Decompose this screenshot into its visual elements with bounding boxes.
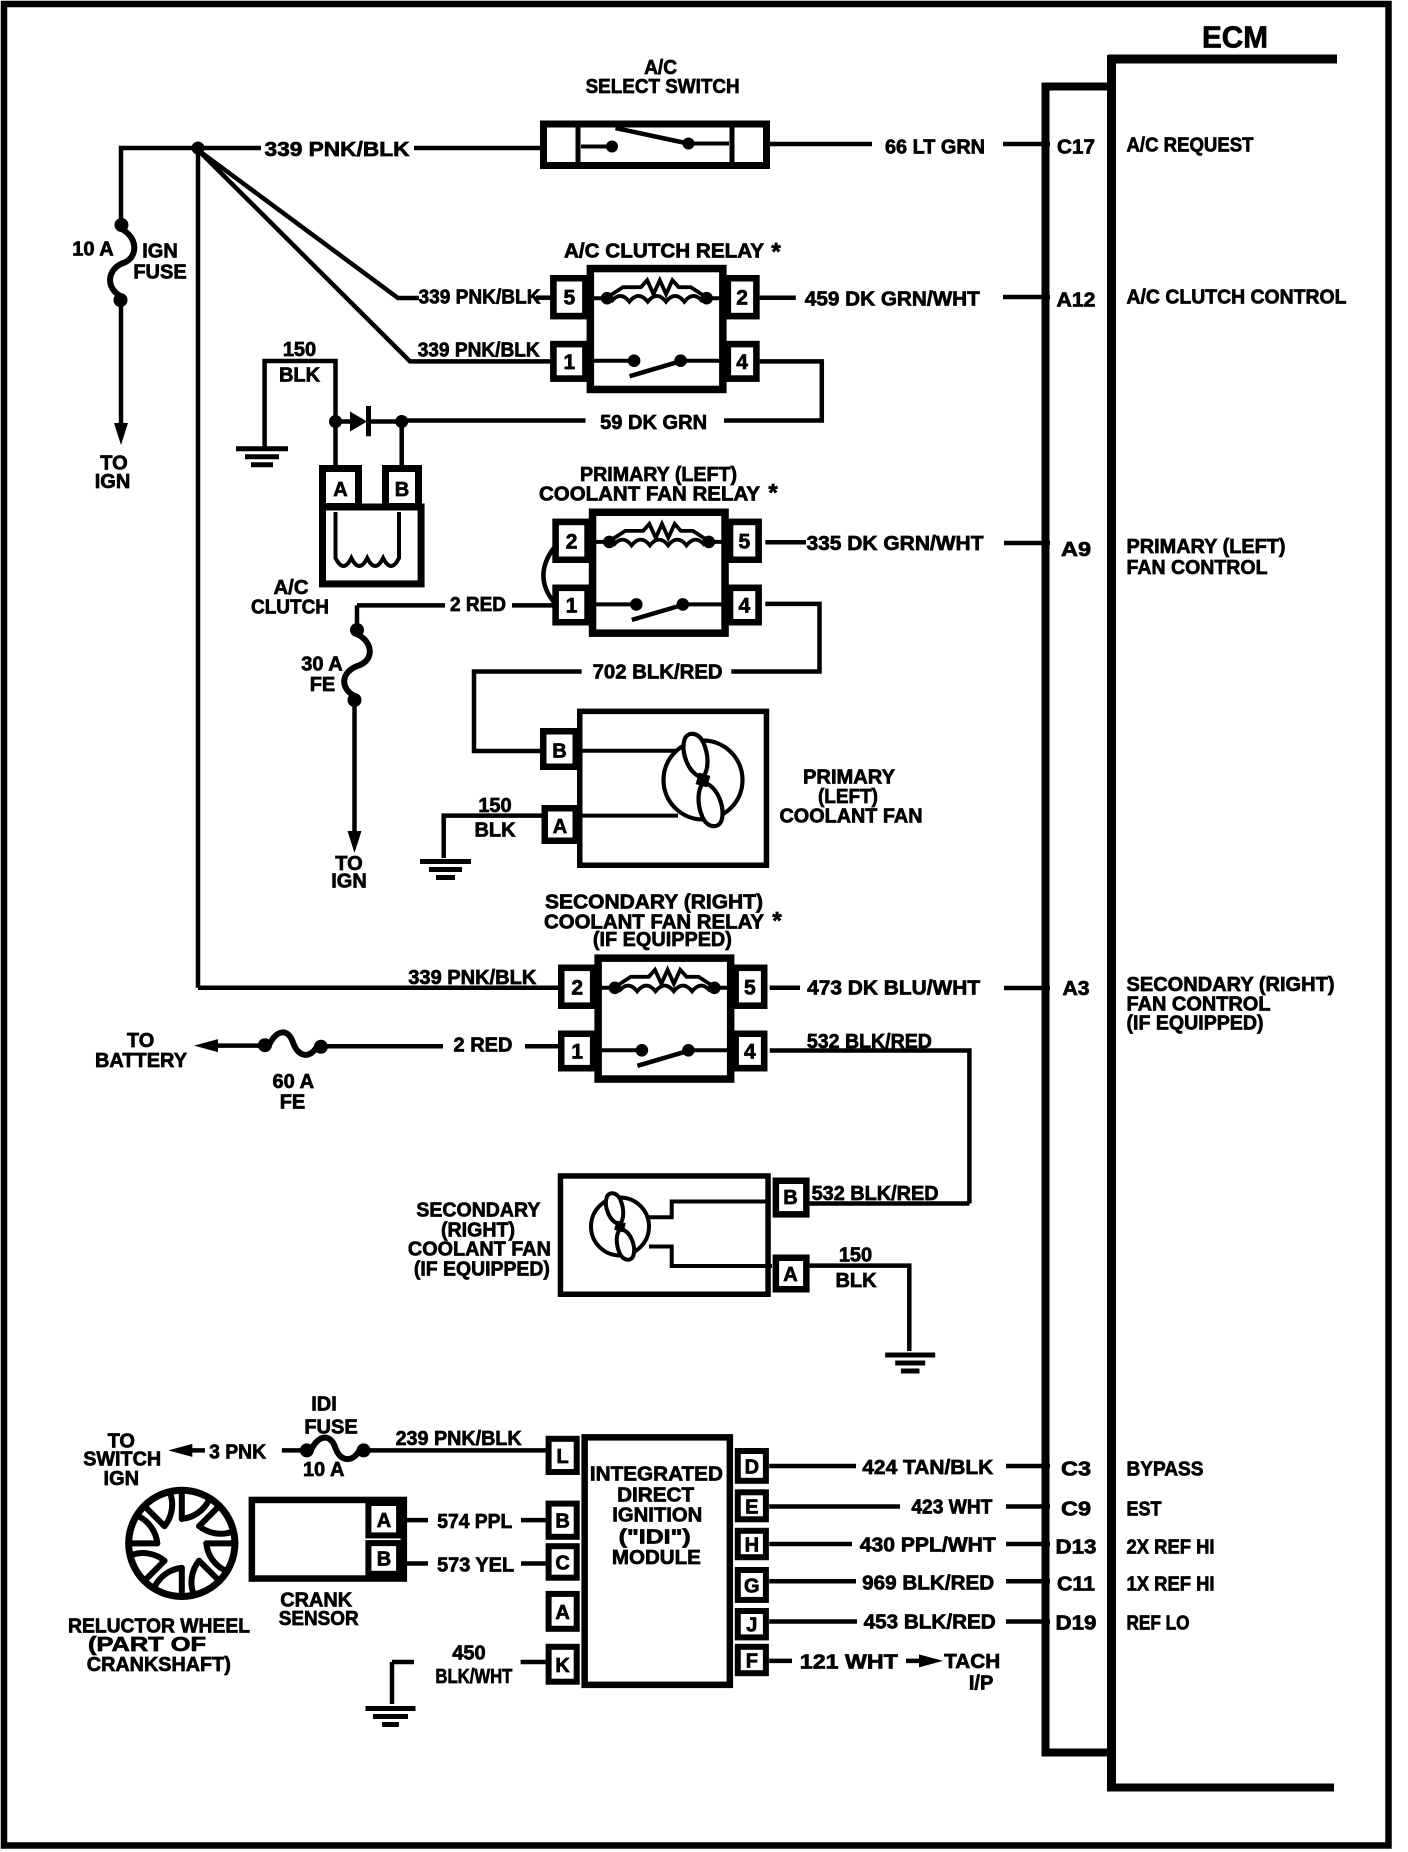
svg-text:C: C xyxy=(555,1552,569,1574)
svg-text:SELECT SWITCH: SELECT SWITCH xyxy=(586,76,740,98)
svg-text:4: 4 xyxy=(744,1040,756,1063)
svg-text:FUSE: FUSE xyxy=(133,262,186,284)
wire 150 BLK secondary fan ground xyxy=(810,1245,910,1351)
svg-text:(IF EQUIPPED): (IF EQUIPPED) xyxy=(1127,1013,1264,1035)
svg-text:150: 150 xyxy=(283,339,316,361)
svg-text:3 PNK: 3 PNK xyxy=(209,1441,267,1463)
node 339 PNK/BLK splice xyxy=(192,142,205,155)
ECM signal label PRIMARY (LEFT) xyxy=(1127,536,1286,579)
wire to IGN with arrow (30A) xyxy=(331,706,367,892)
svg-text:150: 150 xyxy=(839,1245,872,1267)
svg-text:10 A: 10 A xyxy=(303,1459,345,1481)
svg-text:339 PNK/BLK: 339 PNK/BLK xyxy=(408,967,537,989)
svg-text:K: K xyxy=(555,1655,570,1677)
svg-text:*: * xyxy=(772,908,782,935)
wire 2 RED to primary relay pin 1 xyxy=(357,594,553,624)
svg-text:A: A xyxy=(333,479,347,501)
svg-text:(PART OF: (PART OF xyxy=(88,1634,206,1656)
ECM pin D13 wire stub xyxy=(1006,1542,1050,1547)
wire splice down to secondary relay xyxy=(196,148,201,988)
switch A/C select switch xyxy=(544,57,767,166)
svg-text:430 PPL/WHT: 430 PPL/WHT xyxy=(860,1535,996,1557)
svg-text:B: B xyxy=(555,1511,569,1533)
wire 473 DK BLU/WHT xyxy=(770,978,1006,1000)
svg-text:B: B xyxy=(395,479,409,501)
wire 2 RED to battery via 60A fuse xyxy=(95,1030,260,1072)
ECM pin C3 wire stub xyxy=(1006,1464,1050,1469)
ECM pin A9 wire stub xyxy=(1006,541,1050,546)
wire 3 PNK to switch IGN with arrow xyxy=(83,1431,266,1490)
ECM module box xyxy=(1107,20,1337,1792)
wire 450 BLK/WHT to ground xyxy=(392,1643,546,1705)
svg-text:TO: TO xyxy=(127,1030,154,1052)
svg-text:ECM: ECM xyxy=(1202,20,1268,55)
wire 453 BLK/RED xyxy=(769,1612,996,1634)
ECM pin D19 wire stub xyxy=(1006,1619,1050,1624)
svg-text:J: J xyxy=(746,1615,757,1637)
jumper pin2 to pin1 primary relay xyxy=(543,548,553,602)
svg-text:424 TAN/BLK: 424 TAN/BLK xyxy=(862,1457,994,1479)
svg-text:1X REF HI: 1X REF HI xyxy=(1127,1574,1215,1596)
motor secondary (right) coolant fan xyxy=(408,1176,806,1294)
svg-text:B: B xyxy=(552,741,566,763)
svg-text:(IF EQUIPPED): (IF EQUIPPED) xyxy=(414,1259,550,1281)
wire 430 PPL/WHT xyxy=(769,1535,996,1557)
wire 339 PNK/BLK to A/C select switch xyxy=(198,139,540,161)
svg-text:C11: C11 xyxy=(1057,1574,1095,1596)
svg-text:FAN CONTROL: FAN CONTROL xyxy=(1127,557,1268,579)
ECM signal label REF LO xyxy=(1127,1613,1190,1635)
svg-text:702 BLK/RED: 702 BLK/RED xyxy=(593,662,723,684)
svg-text:339 PNK/BLK: 339 PNK/BLK xyxy=(265,139,411,161)
wire 150 BLK primary fan ground xyxy=(444,795,542,858)
svg-text:A/C REQUEST: A/C REQUEST xyxy=(1127,135,1254,157)
ECM signal label A/C CLUTCH CONTROL xyxy=(1127,287,1347,309)
svg-text:FE: FE xyxy=(310,674,336,696)
svg-text:2 RED: 2 RED xyxy=(450,594,506,616)
svg-text:453 BLK/RED: 453 BLK/RED xyxy=(864,1612,996,1634)
svg-text:B: B xyxy=(377,1549,391,1571)
svg-text:A/C CLUTCH CONTROL: A/C CLUTCH CONTROL xyxy=(1127,287,1347,309)
svg-text:A9: A9 xyxy=(1061,539,1091,561)
svg-text:COOLANT FAN: COOLANT FAN xyxy=(408,1239,551,1261)
svg-text:EST: EST xyxy=(1127,1499,1162,1521)
wire 574 PPL xyxy=(403,1511,546,1533)
svg-text:PRIMARY (LEFT): PRIMARY (LEFT) xyxy=(1127,536,1286,558)
ECM signal label EST xyxy=(1127,1499,1162,1521)
svg-text:573 YEL: 573 YEL xyxy=(437,1554,514,1576)
svg-text:339 PNK/BLK: 339 PNK/BLK xyxy=(419,287,542,309)
svg-text:SECONDARY: SECONDARY xyxy=(416,1200,541,1222)
node B diode cathode junction xyxy=(395,415,408,428)
fuse FE 30 A xyxy=(301,623,370,707)
svg-text:459 DK GRN/WHT: 459 DK GRN/WHT xyxy=(805,289,980,311)
diode CR1 xyxy=(336,406,402,436)
svg-text:TACH: TACH xyxy=(944,1651,1000,1673)
wire 339 PNK/BLK diagonal to relay pin 1 xyxy=(198,150,551,362)
svg-text:A: A xyxy=(783,1264,797,1286)
wire 59 DK GRN from relay pin 4 xyxy=(402,361,822,434)
svg-text:COOLANT FAN RELAY: COOLANT FAN RELAY xyxy=(539,484,761,506)
wire 423 WHT xyxy=(769,1497,992,1519)
A/C clutch coil xyxy=(251,469,421,619)
ECM signal label 1X REF HI xyxy=(1127,1574,1215,1596)
svg-text:FUSE: FUSE xyxy=(304,1417,357,1439)
svg-text:1: 1 xyxy=(566,595,578,618)
svg-text:COOLANT FAN: COOLANT FAN xyxy=(780,806,923,828)
svg-text:2: 2 xyxy=(571,976,583,999)
fuse IDI 10 A xyxy=(282,1394,371,1481)
wire 532 BLK/RED into secondary fan B xyxy=(810,1183,970,1205)
svg-text:CRANKSHAFT): CRANKSHAFT) xyxy=(87,1654,231,1676)
svg-text:INTEGRATED: INTEGRATED xyxy=(590,1463,723,1485)
svg-text:CLUTCH: CLUTCH xyxy=(251,597,329,619)
motor primary (left) coolant fan xyxy=(543,711,922,865)
ECM pin C17 wire stub xyxy=(1006,142,1050,147)
svg-text:F: F xyxy=(746,1651,758,1673)
ground for IDI 450 BLK/WHT xyxy=(366,1706,416,1711)
wire 121 WHT to TACH I/P xyxy=(769,1651,1000,1695)
ground for secondary fan xyxy=(885,1353,935,1358)
svg-text:A: A xyxy=(377,1510,391,1532)
wire 969 BLK/RED xyxy=(769,1573,994,1595)
svg-text:A3: A3 xyxy=(1063,978,1090,1000)
svg-text:D19: D19 xyxy=(1056,1613,1097,1635)
wire 424 TAN/BLK xyxy=(769,1457,994,1479)
svg-text:L: L xyxy=(556,1446,568,1468)
svg-text:A12: A12 xyxy=(1057,290,1096,312)
svg-text:*: * xyxy=(768,480,778,507)
svg-text:339 PNK/BLK: 339 PNK/BLK xyxy=(418,340,541,362)
svg-text:MODULE: MODULE xyxy=(612,1547,701,1569)
ECM signal label BYPASS xyxy=(1127,1459,1204,1481)
svg-text:1: 1 xyxy=(564,351,576,374)
svg-text:REF LO: REF LO xyxy=(1127,1613,1190,1635)
relay primary coolant fan relay K2 xyxy=(539,464,761,633)
wire node A to clutch pin A xyxy=(333,422,338,467)
svg-text:E: E xyxy=(745,1496,758,1518)
wire 573 YEL xyxy=(403,1554,546,1576)
svg-text:532 BLK/RED: 532 BLK/RED xyxy=(812,1183,939,1205)
svg-text:4: 4 xyxy=(736,351,748,374)
svg-text:423 WHT: 423 WHT xyxy=(911,1497,992,1519)
svg-text:IGN: IGN xyxy=(142,241,178,263)
wire 459 DK GRN/WHT xyxy=(760,289,1006,311)
svg-text:BLK/WHT: BLK/WHT xyxy=(435,1666,512,1688)
svg-text:450: 450 xyxy=(452,1643,485,1665)
ECM signal label A/C REQUEST xyxy=(1127,135,1254,157)
ECM pin A3 wire stub xyxy=(1006,986,1050,991)
svg-text:2X REF HI: 2X REF HI xyxy=(1127,1537,1215,1559)
svg-text:30 A: 30 A xyxy=(301,654,343,676)
svg-text:(IF EQUIPPED): (IF EQUIPPED) xyxy=(593,929,732,951)
wire to IGN with arrow xyxy=(95,306,131,493)
svg-text:1: 1 xyxy=(571,1040,583,1063)
relay A/C clutch relay K1 xyxy=(553,241,764,390)
svg-text:335 DK GRN/WHT: 335 DK GRN/WHT xyxy=(807,533,984,555)
svg-text:532 BLK/RED: 532 BLK/RED xyxy=(807,1031,932,1053)
svg-text:D13: D13 xyxy=(1056,1537,1097,1559)
svg-text:SENSOR: SENSOR xyxy=(279,1608,360,1630)
ECM signal label 2X REF HI xyxy=(1127,1537,1215,1559)
wire 2 RED segment to secondary relay pin 1 xyxy=(327,1035,559,1057)
wire 339 PNK/BLK to secondary relay pin 2 xyxy=(198,967,559,989)
svg-text:59 DK GRN: 59 DK GRN xyxy=(600,412,707,434)
svg-text:66 LT GRN: 66 LT GRN xyxy=(885,137,985,159)
svg-text:G: G xyxy=(744,1575,760,1597)
svg-text:574 PPL: 574 PPL xyxy=(437,1511,512,1533)
svg-text:H: H xyxy=(745,1535,759,1557)
svg-text:A: A xyxy=(553,816,567,838)
svg-text:BLK: BLK xyxy=(835,1270,877,1292)
svg-text:IDI: IDI xyxy=(311,1394,337,1416)
svg-text:5: 5 xyxy=(738,530,750,553)
svg-text:IGN: IGN xyxy=(104,1468,140,1490)
svg-text:BYPASS: BYPASS xyxy=(1127,1459,1204,1481)
svg-text:121 WHT: 121 WHT xyxy=(800,1651,898,1673)
svg-text:5: 5 xyxy=(564,287,576,310)
IDI module U1 xyxy=(549,1437,766,1685)
svg-text:C17: C17 xyxy=(1057,136,1095,158)
node A diode anode junction xyxy=(329,415,342,428)
svg-text:5: 5 xyxy=(744,976,756,999)
relay secondary coolant fan relay K3 xyxy=(544,892,765,1079)
svg-text:4: 4 xyxy=(738,595,750,618)
svg-text:A: A xyxy=(555,1602,569,1624)
svg-text:FE: FE xyxy=(280,1092,306,1114)
ECM signal label SECONDARY (RIGHT) xyxy=(1127,974,1335,1035)
svg-text:473 DK BLU/WHT: 473 DK BLU/WHT xyxy=(807,978,980,1000)
svg-text:2: 2 xyxy=(566,530,578,553)
wire 239 PNK/BLK to IDI pin L xyxy=(370,1428,546,1450)
wire 150 BLK bracket to ground xyxy=(265,339,336,447)
svg-text:2: 2 xyxy=(736,287,748,310)
svg-text:I/P: I/P xyxy=(969,1673,993,1695)
svg-text:239 PNK/BLK: 239 PNK/BLK xyxy=(396,1428,523,1450)
svg-text:B: B xyxy=(783,1187,797,1209)
svg-text:IGN: IGN xyxy=(95,471,131,493)
svg-text:10 A: 10 A xyxy=(72,239,114,261)
ground for primary fan xyxy=(420,859,471,864)
svg-text:IGN: IGN xyxy=(331,870,367,892)
wire 532 BLK/RED from secondary relay pin 4 xyxy=(770,1031,970,1204)
reluctor wheel (part of crankshaft) xyxy=(68,1490,250,1676)
fuse IGN 10 A xyxy=(72,218,186,307)
ECM pin C9 wire stub xyxy=(1006,1504,1050,1509)
svg-text:BLK: BLK xyxy=(279,365,321,387)
svg-text:969 BLK/RED: 969 BLK/RED xyxy=(862,1573,994,1595)
wire 66 LT GRN xyxy=(770,137,1006,159)
svg-text:BATTERY: BATTERY xyxy=(95,1050,188,1072)
svg-text:IGNITION: IGNITION xyxy=(612,1505,702,1527)
ground for 150 BLK xyxy=(236,446,288,451)
svg-text:("IDI"): ("IDI") xyxy=(619,1527,691,1549)
wire 339 PNK/BLK diagonal to relay pin 5 xyxy=(198,150,552,309)
svg-text:*: * xyxy=(771,239,781,266)
wire 702 BLK/RED from relay pin 4 to primary fan B xyxy=(474,604,820,751)
ECM pin C11 wire stub xyxy=(1006,1579,1050,1584)
crank sensor xyxy=(252,1500,404,1630)
ECM connector strip xyxy=(1042,83,1111,1756)
svg-text:C3: C3 xyxy=(1061,1459,1091,1481)
wire node B to clutch pin B xyxy=(399,422,404,467)
svg-text:C9: C9 xyxy=(1061,1499,1091,1521)
fuse FE 60 A xyxy=(258,1032,328,1113)
svg-text:60 A: 60 A xyxy=(273,1071,315,1093)
svg-text:2 RED: 2 RED xyxy=(454,1035,513,1057)
svg-text:D: D xyxy=(745,1456,759,1478)
wire 335 DK GRN/WHT xyxy=(765,533,1006,555)
svg-text:BLK: BLK xyxy=(474,820,516,842)
svg-text:DIRECT: DIRECT xyxy=(617,1485,694,1507)
ECM pin A12 wire stub xyxy=(1006,295,1050,300)
wire splice to IGN fuse xyxy=(121,148,198,219)
svg-text:A/C CLUTCH RELAY: A/C CLUTCH RELAY xyxy=(564,241,765,263)
